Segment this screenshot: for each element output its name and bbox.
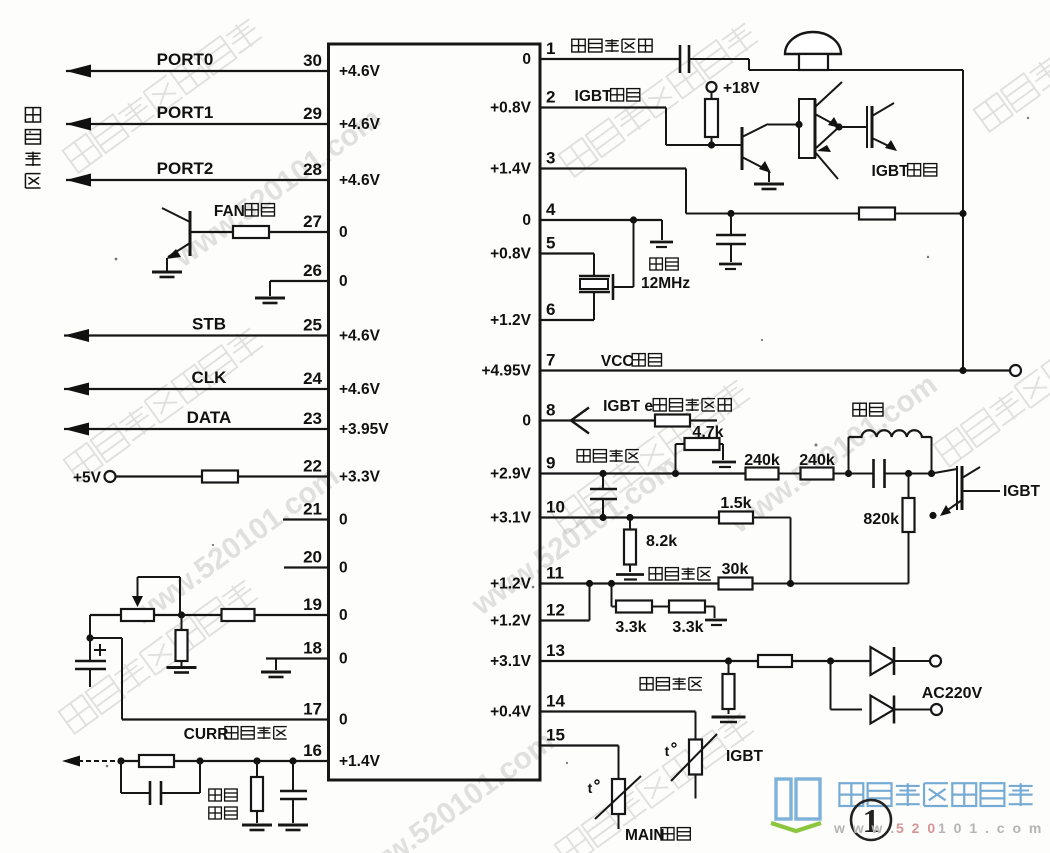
svg-text:VCC: VCC <box>601 353 634 370</box>
svg-text:10: 10 <box>546 498 565 517</box>
svg-text:+5V: +5V <box>73 470 102 487</box>
pin 8 number <box>546 401 555 420</box>
resistor 4.7k <box>676 438 724 474</box>
label PORT2 <box>157 159 214 178</box>
svg-text:19: 19 <box>303 595 322 614</box>
svg-text:0: 0 <box>522 51 531 68</box>
svg-text:240k: 240k <box>744 452 780 469</box>
wire resonator to pin 4 <box>613 220 634 287</box>
pin 18 voltage label 0 <box>339 651 348 668</box>
pin 28 number <box>303 160 322 179</box>
svg-text:www.520101.com: www.520101.com <box>340 725 560 853</box>
watermark text <box>974 0 1050 132</box>
junction <box>586 580 593 587</box>
svg-text:+1.4V: +1.4V <box>339 753 381 770</box>
svg-text:5: 5 <box>546 234 555 253</box>
svg-text:30: 30 <box>303 51 322 70</box>
wire pin 25 STB <box>64 329 329 342</box>
junction <box>599 514 606 521</box>
svg-text:MAIN: MAIN <box>625 827 665 844</box>
svg-text:1.5k: 1.5k <box>720 495 751 512</box>
svg-text:8.2k: 8.2k <box>646 533 677 550</box>
label PORT0 <box>157 50 214 69</box>
capacitor (sync filter) <box>590 474 617 518</box>
watermark text <box>559 21 760 177</box>
ground bar (3.3k) <box>705 620 727 625</box>
svg-text:7: 7 <box>546 351 555 370</box>
wire pot left to cap node <box>90 615 121 638</box>
wire pin 27 <box>190 231 329 233</box>
transistor Q5 (fan driver) <box>162 208 190 271</box>
pin 24 number <box>303 369 322 388</box>
junction <box>959 210 966 217</box>
capacitor (pin3 node) <box>716 214 746 263</box>
label 反峰保护 <box>649 568 711 580</box>
svg-text:240k: 240k <box>799 452 835 469</box>
resistor 3.3k (1) <box>616 601 652 613</box>
wire pin 22 <box>116 475 329 477</box>
wire pin 23 DATA <box>64 423 329 436</box>
svg-text:22: 22 <box>303 457 322 476</box>
svg-text:30k: 30k <box>722 561 749 578</box>
pin 12 number <box>546 601 565 620</box>
svg-text:IGBT: IGBT <box>1003 483 1041 500</box>
wire pin 18 <box>266 659 329 671</box>
junction <box>827 657 834 664</box>
pin 28 voltage label +4.6V <box>339 172 381 189</box>
wire pin 5 to crystal <box>540 254 594 277</box>
label 晶振 12MHz <box>641 258 690 292</box>
svg-text:6: 6 <box>546 300 555 319</box>
svg-text:28: 28 <box>303 160 322 179</box>
label 市电检测 <box>640 678 702 690</box>
svg-text:w w w .: w w w . <box>833 820 896 836</box>
wire pin 30 PORT0 <box>66 65 329 78</box>
wire 1.5k to 30k node <box>753 518 791 584</box>
svg-text:15: 15 <box>546 726 565 745</box>
wire pin 21 <box>283 518 329 520</box>
pin 4 number <box>546 200 556 219</box>
pin 18 number <box>303 639 322 658</box>
wire pin 28 PORT2 <box>66 174 329 187</box>
wire pin 24 CLK <box>64 383 329 396</box>
junction <box>787 580 794 587</box>
wire pin 9 <box>540 472 746 474</box>
capacitor (buzzer coupling) <box>680 45 689 73</box>
svg-text:+3.95V: +3.95V <box>339 421 389 438</box>
wire rail (right vertical) <box>962 70 964 371</box>
label 3.3k <box>615 619 646 636</box>
pin 7 voltage label +4.95V <box>481 363 531 380</box>
thermistor RT2 (MAIN plate temp) <box>595 776 641 829</box>
svg-text:CLK: CLK <box>192 368 228 387</box>
pin 19 number <box>303 595 322 614</box>
svg-text:+4.6V: +4.6V <box>339 381 381 398</box>
svg-text:29: 29 <box>303 104 322 123</box>
ground (pin 26) <box>255 298 285 303</box>
capacitor C (electrolytic) <box>75 638 106 687</box>
resistor (mains series) <box>758 655 792 667</box>
ground bar (4.7k) <box>712 462 736 467</box>
resistor 240k (1) <box>746 468 779 480</box>
pin 10 voltage label +3.1V <box>490 510 532 527</box>
resistor 1.5k <box>719 512 753 524</box>
watermark text <box>63 17 264 173</box>
label 8.2k <box>646 533 677 550</box>
wire pin 6 to crystal <box>540 292 594 320</box>
ground <box>278 825 308 830</box>
wire pin 8 <box>540 419 717 421</box>
svg-text:PORT1: PORT1 <box>157 103 214 122</box>
pin 10 number <box>546 498 565 517</box>
svg-text:0: 0 <box>339 512 348 529</box>
pin 3 number <box>546 149 555 168</box>
wire <box>652 606 669 608</box>
label IGBT使能 <box>575 88 640 105</box>
svg-text:t: t <box>665 743 670 759</box>
pin 27 voltage label 0 <box>339 224 348 241</box>
wire <box>894 660 930 662</box>
resistor 30k <box>719 578 753 590</box>
wire pin 26 <box>270 281 329 296</box>
wire pin 14 <box>540 712 696 740</box>
ground bar (pin 4) <box>650 242 673 247</box>
transistor Q4 (IGBT driver) <box>867 103 897 151</box>
resistor 240k (2) <box>801 468 834 480</box>
svg-text:3: 3 <box>546 149 555 168</box>
junction <box>845 470 852 477</box>
svg-text:+0.4V: +0.4V <box>490 704 532 721</box>
ground bar <box>719 264 742 269</box>
pin 4 voltage label 0 <box>522 212 531 229</box>
wire to driver gate <box>839 126 867 128</box>
svg-text:DATA: DATA <box>187 408 232 427</box>
wire pin 4 <box>540 220 662 240</box>
watermark text <box>555 711 756 853</box>
label CLK <box>192 368 228 387</box>
svg-text:21: 21 <box>303 500 322 519</box>
wire <box>779 473 801 475</box>
pin 2 voltage label +0.8V <box>490 100 532 117</box>
svg-text:+3.1V: +3.1V <box>490 653 532 670</box>
svg-text:+4.6V: +4.6V <box>339 172 381 189</box>
capacitor (coil series) <box>849 459 932 488</box>
label VCC电源 <box>601 353 662 370</box>
svg-text:+4.6V: +4.6V <box>339 328 381 345</box>
potentiometer (preset) <box>121 609 154 621</box>
label PORT1 <box>157 103 214 122</box>
wire pin 11 <box>540 582 719 584</box>
wire <box>612 584 617 607</box>
pin 9 number <box>546 454 555 473</box>
svg-text:25: 25 <box>303 316 322 335</box>
resistor (mains divider) <box>723 661 735 714</box>
ground <box>242 825 272 830</box>
svg-text:24: 24 <box>303 369 322 388</box>
wire pin 13 <box>540 660 871 662</box>
pin 21 voltage label 0 <box>339 512 348 529</box>
capacitor (pin 16 to ground) <box>280 761 307 823</box>
wire pin 20 <box>284 566 329 568</box>
terminal VCC <box>1010 365 1021 376</box>
resistor (pin 8 series) <box>655 415 690 427</box>
svg-text:+1.4V: +1.4V <box>490 161 532 178</box>
label 3.3k <box>672 619 703 636</box>
svg-text:+4.6V: +4.6V <box>339 116 381 133</box>
resistor (drive feedback) <box>859 208 895 220</box>
svg-text:16: 16 <box>303 741 322 760</box>
wire pin 7 VCC <box>540 369 1010 371</box>
terminal AC line 2 <box>931 704 942 715</box>
svg-text:IGBT: IGBT <box>575 88 613 105</box>
watermark text <box>340 725 560 853</box>
svg-text:14: 14 <box>546 692 565 711</box>
label 4.7k <box>692 424 723 441</box>
svg-text:PORT0: PORT0 <box>157 50 214 69</box>
ground (pin 18) <box>261 672 291 677</box>
svg-text:11: 11 <box>546 564 564 583</box>
pin 2 number <box>546 88 555 107</box>
svg-text:20: 20 <box>303 548 322 567</box>
wire pin 29 PORT1 <box>66 118 329 131</box>
pin 29 voltage label +4.6V <box>339 116 381 133</box>
wire pin 15 <box>540 746 619 780</box>
svg-text:0: 0 <box>522 212 531 229</box>
pin 23 number <box>303 409 322 428</box>
watermark text <box>167 102 387 275</box>
junction <box>727 210 734 217</box>
pin 7 number <box>546 351 555 370</box>
wire pin 1 <box>540 58 680 60</box>
svg-text:1 0 1 . c o m: 1 0 1 . c o m <box>938 820 1043 836</box>
svg-text:1: 1 <box>546 39 555 58</box>
pin 13 voltage label +3.1V <box>490 653 532 670</box>
svg-text:FAN: FAN <box>214 203 245 220</box>
wire cap to buzzer rail <box>689 59 963 70</box>
pin 1 number <box>546 39 555 58</box>
open arrow (current sample) <box>571 408 589 434</box>
label STB <box>192 315 226 334</box>
svg-text:+1.2V: +1.2V <box>490 312 532 329</box>
wire pot wiper <box>132 577 180 615</box>
transistor Q1 <box>742 124 799 182</box>
label AC220V <box>922 685 983 702</box>
svg-text:+3.1V: +3.1V <box>490 510 532 527</box>
capacitor C (electrolytic) plus sign <box>94 644 106 656</box>
pin 17 number <box>303 700 322 719</box>
pin 25 voltage label +4.6V <box>339 328 381 345</box>
pin 23 voltage label +3.95V <box>339 421 389 438</box>
svg-text:STB: STB <box>192 315 226 334</box>
svg-text:12MHz: 12MHz <box>641 275 690 292</box>
resistor (+18V bias) <box>705 92 718 145</box>
label 蜂鸣器驱动 <box>572 39 652 52</box>
resistor 3.3k (2) <box>669 601 705 613</box>
svg-text:CURR: CURR <box>184 726 229 743</box>
watermark text <box>64 326 265 482</box>
label 30k <box>722 561 749 578</box>
pin 24 voltage label +4.6V <box>339 381 381 398</box>
pin 30 voltage label +4.6V <box>339 63 381 80</box>
label 同步取样 <box>577 450 639 462</box>
svg-text:+1.2V: +1.2V <box>490 613 532 630</box>
svg-text:12: 12 <box>546 601 565 620</box>
junction (pot wiper node) <box>178 611 185 618</box>
watermark text <box>59 578 260 734</box>
label IGBT e极电流取样 <box>603 398 731 415</box>
pin 1 voltage label 0 <box>522 51 531 68</box>
pin 14 voltage label +0.4V <box>490 704 532 721</box>
pin 20 number <box>303 548 322 567</box>
label IGBT <box>1003 483 1041 500</box>
svg-text:+0.8V: +0.8V <box>490 100 532 117</box>
logo url www.520101.com <box>833 820 1043 836</box>
pin 22 voltage label +3.3V <box>339 469 381 486</box>
resistor (pin 19 series) <box>222 609 255 621</box>
pin 25 number <box>303 316 322 335</box>
wire pin 10 <box>540 516 719 518</box>
svg-text:+1.2V: +1.2V <box>490 576 532 593</box>
label 240k <box>744 452 780 469</box>
thermistor RT1 (IGBT temp) <box>671 734 717 799</box>
svg-text:AC220V: AC220V <box>922 685 983 702</box>
resonator electrode <box>612 274 615 300</box>
label DATA <box>187 408 232 427</box>
label IGBT <box>726 748 764 765</box>
terminal AC line 1 <box>930 656 941 667</box>
watermark text <box>723 368 943 541</box>
svg-text:4.7k: 4.7k <box>692 424 723 441</box>
wire <box>834 473 849 475</box>
svg-text:+3.3V: +3.3V <box>339 469 381 486</box>
ground (Q1 emitter) <box>754 184 784 189</box>
pin 16 voltage label +1.4V <box>339 753 381 770</box>
svg-text:0: 0 <box>339 224 348 241</box>
svg-text:3.3k: 3.3k <box>672 619 703 636</box>
pin 11 voltage label +1.2V <box>490 576 532 593</box>
capacitor (surge, parallel) <box>121 761 200 805</box>
pin 29 number <box>303 104 322 123</box>
watermark text <box>934 311 1050 467</box>
resistor 820k <box>903 474 915 584</box>
wire IGBT lead <box>962 490 1000 492</box>
ground (mains divider) <box>712 717 746 722</box>
ground (pin 19 resistor) <box>167 668 197 673</box>
junction <box>928 470 935 477</box>
svg-text:8: 8 <box>546 401 555 420</box>
pin 13 number <box>546 641 565 660</box>
junction (driver input) <box>795 121 802 128</box>
svg-text:4: 4 <box>546 200 556 219</box>
svg-text:27: 27 <box>303 212 322 231</box>
label 线盘 <box>853 403 883 416</box>
pin 16 number <box>303 741 322 760</box>
junction (IGBT emitter) <box>929 512 936 519</box>
pin 14 number <box>546 692 565 711</box>
svg-text:5 2 0: 5 2 0 <box>896 820 937 836</box>
watermark text <box>125 460 345 633</box>
svg-text:+4.95V: +4.95V <box>481 363 531 380</box>
transistor pair Q2/Q3 (push-pull) <box>799 82 842 179</box>
junction (push-pull output) <box>835 123 842 130</box>
svg-text:IGBT e: IGBT e <box>603 398 653 415</box>
resistor (pin 16 to ground) <box>251 761 263 823</box>
pin 9 voltage label +2.9V <box>490 466 532 483</box>
pin 20 voltage label 0 <box>339 560 348 577</box>
transistor IGBT (power) <box>932 466 981 516</box>
svg-text:18: 18 <box>303 639 322 658</box>
diode D2 <box>871 696 931 724</box>
svg-text:3.3k: 3.3k <box>615 619 646 636</box>
svg-text:0: 0 <box>522 413 531 430</box>
pin 22 number <box>303 457 322 476</box>
junction <box>725 657 732 664</box>
logo text 家电维修资料网 <box>839 783 1032 806</box>
pin 27 number <box>303 212 322 231</box>
pin 12 voltage label +1.2V <box>490 613 532 630</box>
junction <box>196 757 203 764</box>
svg-text:820k: 820k <box>863 511 899 528</box>
svg-text:0: 0 <box>339 607 348 624</box>
wire pin 19 <box>90 614 329 616</box>
wire pin 3 <box>540 169 963 214</box>
junction <box>905 470 912 477</box>
label 浪涌检测 <box>209 789 237 819</box>
ground (fan emitter) <box>152 272 182 277</box>
junction (base node) <box>708 141 715 148</box>
terminal +5V <box>73 470 116 487</box>
label t° <box>665 743 676 759</box>
svg-text:0: 0 <box>339 651 348 668</box>
pin 5 voltage label +0.8V <box>490 246 532 263</box>
logo book icon <box>771 779 821 831</box>
pin 3 voltage label +1.4V <box>490 161 532 178</box>
svg-text:17: 17 <box>303 700 322 719</box>
svg-text:+2.9V: +2.9V <box>490 466 532 483</box>
pin 21 number <box>303 500 322 519</box>
resistor (pin 19 to ground) <box>176 615 188 666</box>
junction <box>289 757 296 764</box>
logo circled 1 <box>851 800 891 840</box>
wire pin 12 <box>540 584 590 621</box>
label 240k <box>799 452 835 469</box>
diode D1 <box>871 647 895 675</box>
svg-text:+4.6V: +4.6V <box>339 63 381 80</box>
label CURR电流检测 <box>184 726 287 743</box>
pin 30 number <box>303 51 322 70</box>
pin 5 number <box>546 234 555 253</box>
pin 26 number <box>303 261 322 280</box>
resistor (surge series) <box>139 755 174 767</box>
wire pin 2 <box>540 108 742 146</box>
pin 11 number <box>546 564 564 583</box>
svg-text:0: 0 <box>339 273 348 290</box>
pin 19 voltage label 0 <box>339 607 348 624</box>
svg-text:IGBT: IGBT <box>872 163 910 180</box>
pin 6 voltage label +1.2V <box>490 312 532 329</box>
junction <box>959 367 966 374</box>
wire pin 16 (surge input) <box>62 756 329 767</box>
pin 8 voltage label 0 <box>522 413 531 430</box>
svg-text:0: 0 <box>339 712 348 729</box>
wire cap node to pin 17 <box>90 638 329 720</box>
junction <box>626 514 633 521</box>
svg-text:13: 13 <box>546 641 565 660</box>
svg-text:+0.8V: +0.8V <box>490 246 532 263</box>
label FAN驱动 <box>214 203 275 220</box>
scan speckles <box>29 117 1029 768</box>
svg-text:+18V: +18V <box>723 80 760 97</box>
